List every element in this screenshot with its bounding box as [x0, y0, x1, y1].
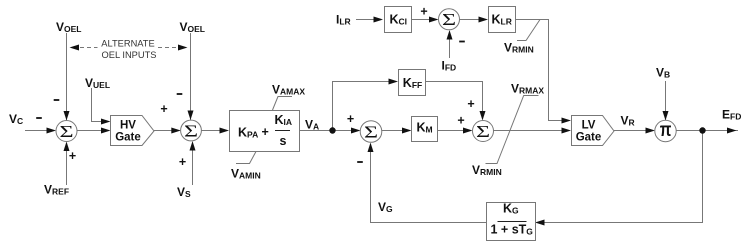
svg-text:Gate: Gate: [115, 132, 141, 144]
svg-text:Σ: Σ: [184, 121, 198, 141]
svg-text:+: +: [347, 112, 354, 126]
svg-text:s: s: [280, 134, 287, 148]
svg-text:+: +: [420, 5, 427, 19]
svg-text:+: +: [160, 102, 167, 116]
svg-text:Gate: Gate: [576, 132, 602, 144]
svg-text:π: π: [660, 118, 672, 140]
svg-text:+: +: [179, 155, 186, 169]
svg-text:Σ: Σ: [442, 10, 456, 30]
svg-text:+: +: [467, 97, 474, 111]
svg-text:Σ: Σ: [59, 121, 73, 141]
svg-text:HV: HV: [120, 120, 136, 132]
svg-text:Σ: Σ: [364, 122, 378, 142]
svg-text:ALTERNATE: ALTERNATE: [101, 39, 154, 49]
svg-text:+: +: [69, 149, 76, 163]
svg-text:OEL INPUTS: OEL INPUTS: [102, 50, 157, 60]
svg-text:Σ: Σ: [476, 121, 490, 141]
svg-text:LV: LV: [582, 120, 596, 132]
svg-text:+: +: [457, 114, 464, 128]
svg-text:+: +: [262, 125, 269, 139]
